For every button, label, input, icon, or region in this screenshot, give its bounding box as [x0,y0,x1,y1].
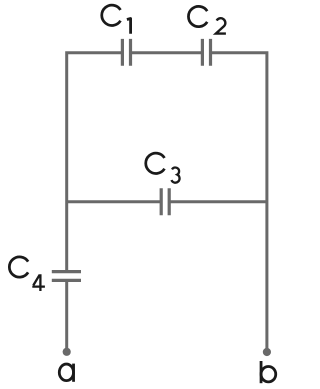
label b (terminal b) [261,361,276,383]
wire: middle horizontal right of C3 [169,200,267,203]
label C4 [9,257,45,291]
label C1 [102,5,131,34]
label a (terminal a) [59,364,73,382]
label C2 [188,6,225,33]
label C3 [146,153,180,183]
node b terminal dot [263,348,271,356]
capacitor C2 plates [202,39,210,66]
capacitor C1 plates [122,39,130,66]
wire: top between C1 and C2 [131,51,203,54]
wire: below C4 down to terminal a [65,280,68,352]
wire: middle horizontal left of C3 [67,200,162,203]
capacitor C4 plates [52,272,81,281]
wire: top-right corner + right vertical down to terminal b [211,53,267,352]
capacitor C3 plates [161,188,169,215]
node a terminal dot [63,348,71,356]
wire: top-left corner + left vertical down to C4 [67,53,123,272]
